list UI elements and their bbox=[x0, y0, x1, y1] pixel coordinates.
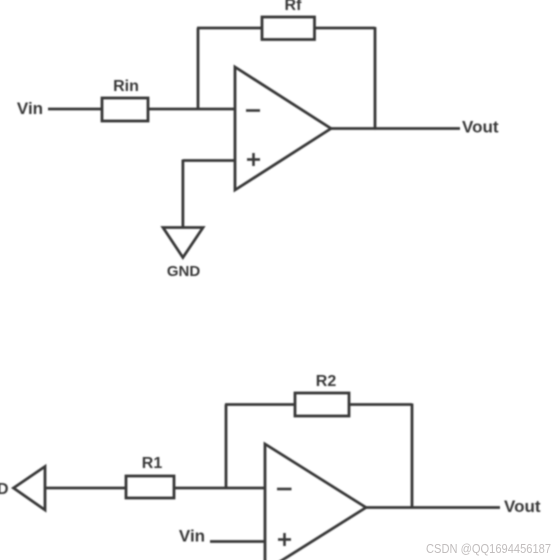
wire ground riser bbox=[181, 160, 184, 227]
wire left ground to R1 bbox=[45, 487, 126, 490]
wire Rf to output riser bbox=[315, 27, 376, 30]
ground (GND symbol triangle) bbox=[163, 228, 203, 258]
wire Vin to Rin bbox=[48, 108, 102, 111]
ground (left GND symbol, clipped at edge, lower circuit) bbox=[14, 467, 46, 511]
svg-text:R1: R1 bbox=[142, 455, 163, 472]
node A (feedback tap junction, vertical riser) bbox=[197, 28, 200, 109]
wire Vin to non-inverting input of U2 bbox=[210, 540, 265, 543]
resistor R2 (body) bbox=[295, 393, 349, 416]
wire U2 output to Vout bbox=[366, 506, 500, 509]
node B (feedback tap junction, vertical riser) bbox=[225, 405, 228, 489]
pin + (U1 non-inverting input marker) bbox=[247, 153, 260, 166]
wire R2 to output riser bbox=[349, 403, 412, 406]
pin - (U2 inverting input marker) bbox=[277, 488, 292, 491]
wire Rin to inverting input of U1 bbox=[148, 108, 235, 111]
pin - (U1 inverting input marker) bbox=[246, 109, 260, 112]
pin + (U2 non-inverting input marker) bbox=[278, 533, 291, 546]
resistor Rf (body) bbox=[262, 17, 315, 40]
wire U1 output to Vout bbox=[331, 127, 460, 130]
svg-text:Rin: Rin bbox=[113, 78, 139, 95]
op-amp U2 (triangle) bbox=[265, 444, 366, 560]
svg-text:GND: GND bbox=[167, 263, 201, 280]
resistor R1 (body) bbox=[126, 476, 174, 498]
svg-text:Vin: Vin bbox=[17, 99, 43, 118]
resistor Rin (body) bbox=[102, 98, 148, 121]
wire ground to non-inverting input of U1 bbox=[183, 159, 235, 162]
svg-text:GND: GND bbox=[0, 481, 9, 498]
svg-text:R2: R2 bbox=[316, 373, 337, 390]
op-amp U1 (triangle) bbox=[235, 67, 331, 190]
svg-text:Vout: Vout bbox=[504, 497, 541, 516]
svg-text:CSDN @QQ1694456187: CSDN @QQ1694456187 bbox=[426, 542, 551, 556]
wire feedback output riser bbox=[374, 27, 377, 130]
wire node B to R2 bbox=[225, 403, 295, 406]
wire R1 to inverting input of U2 bbox=[174, 487, 265, 490]
svg-text:Rf: Rf bbox=[285, 0, 303, 14]
svg-text:Vout: Vout bbox=[462, 117, 499, 136]
svg-text:Vin: Vin bbox=[179, 526, 205, 545]
wire node A to Rf bbox=[197, 27, 262, 30]
wire feedback output riser (lower) bbox=[411, 404, 414, 509]
